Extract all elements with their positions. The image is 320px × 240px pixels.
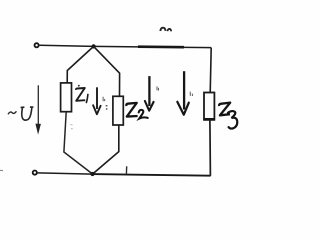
wire right branch upper [210,48,211,93]
terminal b (bottom-left) [33,171,37,175]
resistor Z3 box [204,93,214,120]
wire Z1 lower branch [64,112,93,174]
label i3 tiny index [190,92,192,96]
arrow I3 [183,71,185,109]
label Z3 letter Z [219,103,230,116]
source symbol ~ [8,111,16,114]
wire Z2 upper branch [94,46,120,96]
wire right branch lower [209,120,212,175]
label Z1 phasor dot [78,85,80,87]
wire bottom left segment [38,173,93,174]
label Z1 letter Z [76,88,85,101]
wire Z1 upper branch [67,46,93,83]
wire bottom right segment [93,174,211,176]
arrow I1 [96,87,98,109]
label Z3 subscript 3 [228,111,237,129]
wire top horizontal [40,45,212,47]
label colon mark right of I1 [106,106,108,110]
resistor Z3 thick bottom edge [204,118,215,121]
arrow U (voltage direction) [37,85,39,125]
node top junction [92,44,96,48]
label Z2 letter Z [126,103,137,117]
label Z1 subscript 1 [86,94,88,102]
arrow I2 [148,76,150,106]
node bottom junction [90,172,94,176]
wire tick on bottom wire [125,166,127,174]
label U [21,107,34,120]
label i1 tiny index [103,97,105,101]
terminal a (top-left) [35,43,39,47]
noise dash left edge [0,169,3,171]
label i2 tiny index [157,86,159,90]
resistor Z1 box [61,83,72,112]
label Ra (faded caption top) [160,28,165,31]
wire Z2 lower branch [93,125,119,174]
wire top overdraw thick segment [138,45,184,48]
label Z2 subscript 2 [139,110,148,119]
resistor Z2 box [113,96,123,125]
noise dots near Z1 lower wire [71,125,73,129]
